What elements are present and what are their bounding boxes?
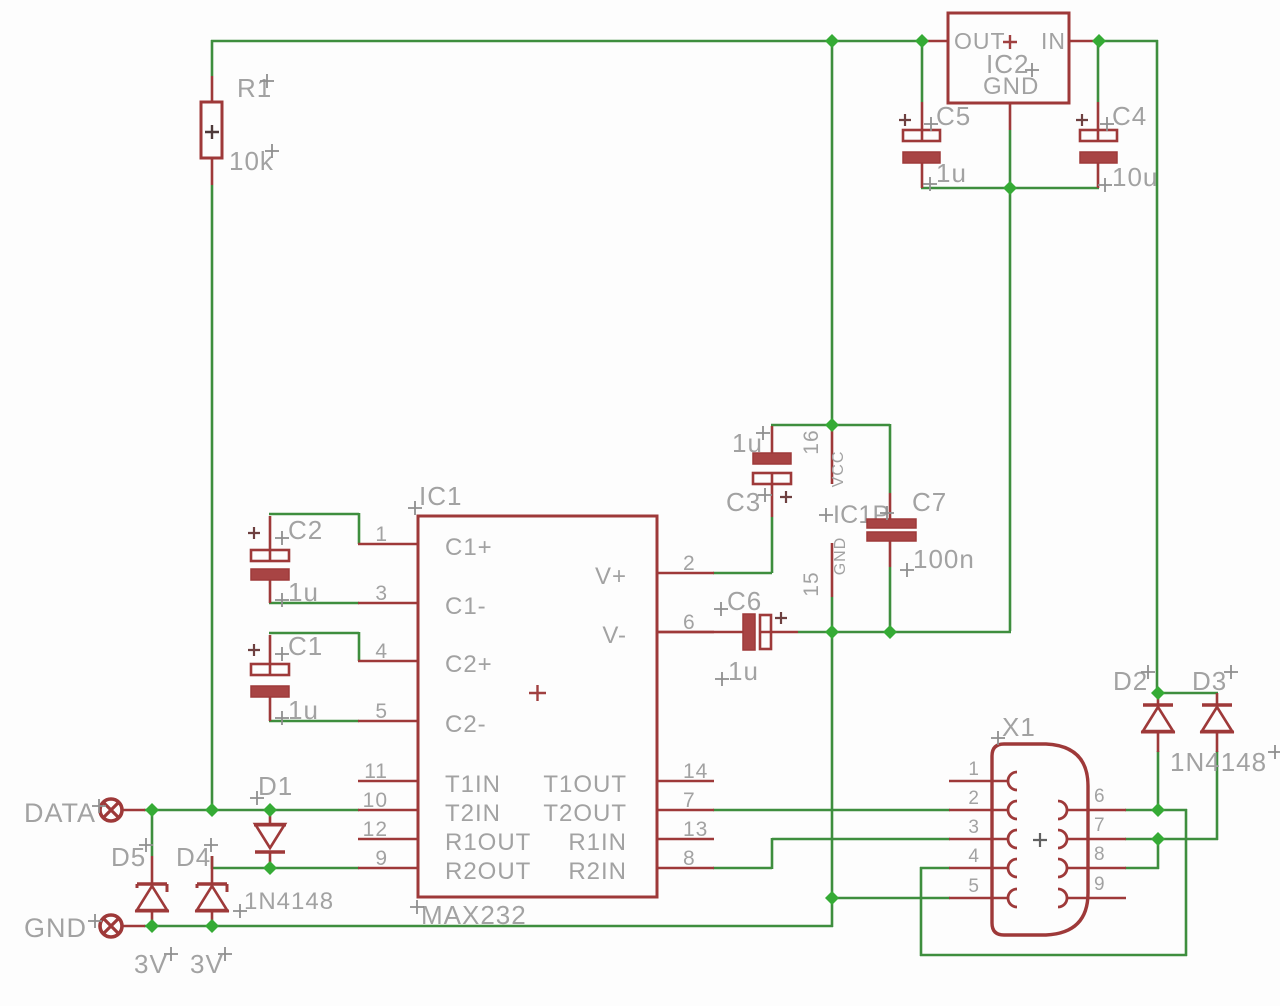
IC1 pin 6 stub xyxy=(657,611,714,634)
label R1 xyxy=(237,73,274,103)
wire X1 pin 8 to pin7 net xyxy=(1125,838,1159,869)
svg-text:GND: GND xyxy=(24,913,87,943)
svg-text:IN: IN xyxy=(1041,28,1066,54)
label D3 xyxy=(1192,665,1238,696)
svg-text:IC1: IC1 xyxy=(419,481,462,511)
diode D4 xyxy=(195,856,229,927)
svg-text:16: 16 xyxy=(800,429,823,454)
label IC2 xyxy=(986,49,1039,79)
capacitor C3 xyxy=(753,426,792,517)
svg-text:7: 7 xyxy=(683,789,696,812)
value 10u xyxy=(1098,162,1158,192)
junction (832,41) xyxy=(825,34,839,48)
capacitor C6 xyxy=(657,612,798,650)
junction (890,632) xyxy=(883,625,897,639)
svg-text:15: 15 xyxy=(800,571,823,596)
value 3V D5 xyxy=(134,947,178,979)
junction (1010,188) xyxy=(1003,181,1017,195)
wire DATA to D5 cathode xyxy=(151,809,154,856)
svg-text:13: 13 xyxy=(683,818,708,841)
svg-text:GND: GND xyxy=(832,537,849,576)
IC1 pin 14 stub xyxy=(657,760,714,783)
wire R1 bottom to DATA node xyxy=(211,185,214,811)
wire GND row at C6/C7 xyxy=(798,631,1011,634)
svg-text:D4: D4 xyxy=(176,842,211,872)
svg-text:3: 3 xyxy=(375,582,388,605)
value 10k xyxy=(229,144,279,176)
svg-text:C3: C3 xyxy=(726,487,761,517)
wire VCC top rail left xyxy=(211,40,923,43)
IC1 pin 5 stub xyxy=(358,700,418,723)
svg-text:R2OUT: R2OUT xyxy=(445,858,531,885)
IC1 pin 10 stub xyxy=(358,789,418,812)
svg-text:4: 4 xyxy=(375,640,388,663)
resistor R1 xyxy=(201,76,222,185)
wire C4 top to IN node xyxy=(1097,40,1100,102)
IC1P power gate pin 16 VCC xyxy=(800,426,847,487)
svg-text:MAX232: MAX232 xyxy=(421,900,527,930)
svg-text:12: 12 xyxy=(363,818,388,841)
wire right drop pin6 net xyxy=(1185,809,1188,956)
svg-text:8: 8 xyxy=(683,847,696,870)
label IC1P xyxy=(819,501,889,529)
svg-text:VCC: VCC xyxy=(830,451,847,488)
junction (1158,839) xyxy=(1151,832,1165,846)
label D5 xyxy=(111,838,153,872)
junction (1158,810) xyxy=(1151,803,1165,817)
capacitor C1 xyxy=(248,635,289,721)
svg-text:T2IN: T2IN xyxy=(445,800,501,827)
svg-text:C2: C2 xyxy=(288,515,323,545)
IC1 pin 9 stub xyxy=(358,847,418,870)
svg-text:10u: 10u xyxy=(1112,162,1158,192)
svg-text:5: 5 xyxy=(375,700,388,723)
voltage regulator IC2 body xyxy=(922,13,1099,130)
svg-text:9: 9 xyxy=(375,847,388,870)
svg-text:R2IN: R2IN xyxy=(568,858,627,885)
wire GND row xyxy=(144,925,833,928)
wire C3 bottom to V+ pin xyxy=(713,517,772,573)
svg-text:11: 11 xyxy=(364,760,388,783)
junction (1158,693) xyxy=(1151,686,1165,700)
connector X1 body xyxy=(992,744,1088,935)
svg-text:R1OUT: R1OUT xyxy=(445,829,531,856)
wire DATA row xyxy=(144,809,359,812)
label IC1 xyxy=(408,481,462,515)
svg-text:10: 10 xyxy=(363,789,388,812)
junction (1099,41) xyxy=(1092,34,1106,48)
label C1 xyxy=(275,631,323,661)
svg-text:V+: V+ xyxy=(595,563,627,590)
svg-text:3V: 3V xyxy=(134,949,168,979)
wire D2 anode to pin6 row xyxy=(1157,751,1160,811)
X1 pin 5 xyxy=(949,876,1017,907)
svg-text:T2OUT: T2OUT xyxy=(543,800,627,827)
label X1 xyxy=(991,712,1036,745)
diode D3 xyxy=(1200,693,1234,752)
wire X1 pin 5 to GND xyxy=(831,897,950,900)
svg-text:C4: C4 xyxy=(1112,101,1147,131)
svg-text:1u: 1u xyxy=(728,656,759,686)
capacitor C2 xyxy=(248,516,289,603)
capacitor C7 xyxy=(867,493,916,567)
wire X1 pin 6 row xyxy=(1125,809,1187,812)
wire C5 top to OUT node xyxy=(921,40,924,102)
wire pin15 to GND row xyxy=(831,597,834,632)
label DATA xyxy=(24,798,106,828)
value 1u C3 xyxy=(732,426,770,458)
label D1 xyxy=(250,771,293,805)
IC2 origin cross xyxy=(1003,35,1017,49)
wire C5/C4 ground row xyxy=(921,187,1099,190)
label C7 xyxy=(880,487,947,520)
svg-text:1: 1 xyxy=(375,523,388,546)
wire C2 bottom to pin 3 xyxy=(269,602,359,605)
svg-text:C2-: C2- xyxy=(445,711,487,738)
junction (152,810) xyxy=(145,803,159,817)
svg-text:DATA: DATA xyxy=(24,798,96,828)
wire VCC top rail right xyxy=(1098,40,1158,43)
wire VCC right drop to D2/D3 xyxy=(1156,40,1159,694)
svg-text:D3: D3 xyxy=(1192,666,1227,696)
X1 pin 8 xyxy=(1058,844,1126,877)
label C3 xyxy=(726,487,772,517)
svg-text:7: 7 xyxy=(1094,815,1106,836)
svg-text:8: 8 xyxy=(1094,844,1106,865)
X1 pin 7 xyxy=(1058,815,1126,848)
wire D3 anode drop to pin7 row xyxy=(1216,751,1219,840)
svg-text:5: 5 xyxy=(968,876,980,897)
X1 pin 1 xyxy=(949,759,1017,790)
svg-text:1N4148: 1N4148 xyxy=(1170,747,1267,777)
label C2 xyxy=(275,515,323,545)
svg-text:14: 14 xyxy=(683,760,708,783)
IC2 pin name IN xyxy=(1041,28,1066,54)
value 1u C6 xyxy=(715,656,759,686)
wire C2 top to pin 1 xyxy=(269,513,359,544)
diode D2 xyxy=(1141,693,1175,752)
wire X1 pin 7 row xyxy=(1125,838,1218,841)
wire VCC junction to C3 xyxy=(771,424,833,427)
wire GND mid column xyxy=(831,631,834,899)
IC1 pin 2 stub xyxy=(657,552,714,575)
value MAX232 xyxy=(410,900,527,930)
label C4 xyxy=(1100,101,1147,131)
wire C1 bottom to pin 5 xyxy=(269,720,359,723)
svg-text:V-: V- xyxy=(602,622,627,649)
wire D2/D3 cathode link xyxy=(1157,692,1218,695)
junction (270,810) xyxy=(263,803,277,817)
wire bottom return xyxy=(920,954,1187,957)
X1 pin 9 xyxy=(1058,874,1126,907)
wire VCC junction to C7 xyxy=(832,424,890,493)
wire T2OUT to X1 pin 2 xyxy=(713,809,950,812)
IC1 pin 13 stub xyxy=(657,818,714,841)
wire C1 top to pin 4 xyxy=(269,632,359,661)
value 1u C2 xyxy=(275,577,319,607)
IC1 origin cross xyxy=(529,685,546,701)
svg-text:GND: GND xyxy=(983,73,1039,100)
junction (922,41) xyxy=(915,34,929,48)
IC1 pin 1 stub xyxy=(358,523,418,546)
IC IC1 MAX232 body xyxy=(418,516,657,897)
svg-text:X1: X1 xyxy=(1002,712,1036,742)
wire R1 top to rail xyxy=(211,40,214,76)
label D2 xyxy=(1113,665,1155,696)
value 1u C1 xyxy=(275,695,319,725)
svg-text:1u: 1u xyxy=(288,577,319,607)
svg-text:C1-: C1- xyxy=(445,593,487,620)
wire C7 bottom to GND row xyxy=(889,567,892,633)
junction (270,868) xyxy=(263,861,277,875)
IC1 pin names right xyxy=(543,563,627,885)
svg-text:9: 9 xyxy=(1094,874,1106,895)
value 1N4148 D1 xyxy=(233,888,334,918)
IC2 pin name GND xyxy=(983,73,1039,100)
svg-text:C1+: C1+ xyxy=(445,534,493,561)
X1 pin 6 xyxy=(1058,786,1126,819)
svg-text:1u: 1u xyxy=(288,695,319,725)
wire R2IN to X1 pin 3 xyxy=(713,838,950,869)
wire IC2 GND column xyxy=(1009,130,1012,631)
svg-text:T1IN: T1IN xyxy=(445,771,501,798)
label C5 xyxy=(924,101,971,131)
pad GND xyxy=(100,915,145,937)
value 3V D4 xyxy=(190,947,232,979)
svg-text:6: 6 xyxy=(683,611,696,634)
IC1 pin names left xyxy=(445,534,531,885)
capacitor C5 xyxy=(899,102,940,188)
junction (152,926) xyxy=(145,919,159,933)
svg-text:1u: 1u xyxy=(936,158,967,188)
IC1 pin 8 stub xyxy=(657,847,714,870)
X1 pin 2 xyxy=(949,788,1017,819)
svg-text:1: 1 xyxy=(968,759,980,780)
svg-text:C1: C1 xyxy=(288,631,323,661)
value 1u C5 xyxy=(923,158,967,191)
IC1 pin 4 stub xyxy=(358,640,418,663)
IC1 pin 12 stub xyxy=(358,818,418,841)
wire X1 pin 4 drop xyxy=(920,867,950,956)
junction (212,810) xyxy=(205,803,219,817)
junction (832,898) xyxy=(825,891,839,905)
svg-text:C2+: C2+ xyxy=(445,651,493,678)
wire GND riser to X1 pin5 row xyxy=(831,897,834,927)
svg-text:D1: D1 xyxy=(258,771,293,801)
capacitor C4 xyxy=(1076,102,1117,188)
svg-text:T1OUT: T1OUT xyxy=(543,771,627,798)
wire R2OUT row (D4/D1 to pin 9) xyxy=(211,856,359,869)
label D4 xyxy=(176,838,218,872)
IC1 pin 3 stub xyxy=(358,582,418,605)
svg-text:4: 4 xyxy=(968,846,980,867)
pad DATA xyxy=(100,799,145,821)
junction (212,926) xyxy=(205,919,219,933)
svg-text:D5: D5 xyxy=(111,842,146,872)
junction (832,425) xyxy=(825,418,839,432)
X1 pin 3 xyxy=(949,817,1017,848)
X1 pin 4 xyxy=(949,846,1017,877)
value 1N4148 D2 D3 xyxy=(1170,745,1280,777)
svg-text:6: 6 xyxy=(1094,786,1106,807)
svg-text:100n: 100n xyxy=(913,544,975,574)
svg-text:3: 3 xyxy=(968,817,980,838)
IC1 pin 11 stub xyxy=(358,760,418,783)
label C6 xyxy=(714,586,762,616)
svg-text:D2: D2 xyxy=(1113,666,1148,696)
svg-text:C5: C5 xyxy=(936,101,971,131)
svg-text:C6: C6 xyxy=(727,586,762,616)
value 100n xyxy=(900,544,975,577)
svg-text:R1IN: R1IN xyxy=(568,829,627,856)
IC2 pin name OUT xyxy=(954,28,1006,54)
diode D5 xyxy=(135,856,169,927)
svg-text:2: 2 xyxy=(683,552,696,575)
junction (832,632) xyxy=(825,625,839,639)
IC1P power gate pin 15 GND xyxy=(800,537,849,597)
label GND xyxy=(24,913,102,943)
svg-text:2: 2 xyxy=(968,788,980,809)
wire VCC column to pin 16 xyxy=(831,40,834,426)
svg-text:C7: C7 xyxy=(912,487,947,517)
diode D1 xyxy=(254,811,286,869)
svg-text:1N4148: 1N4148 xyxy=(244,888,334,915)
IC1 pin 7 stub xyxy=(657,789,714,812)
